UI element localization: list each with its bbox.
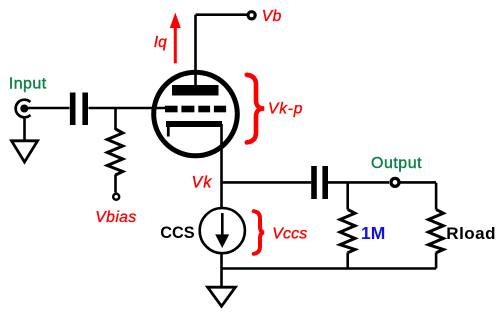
svg-text:Input: Input <box>9 76 47 93</box>
svg-text:Iq: Iq <box>154 34 167 51</box>
svg-text:Vccs: Vccs <box>272 225 307 242</box>
svg-text:Vk: Vk <box>192 174 213 192</box>
svg-text:Vb: Vb <box>262 8 282 25</box>
svg-text:Rload: Rload <box>446 224 496 243</box>
svg-text:Vbias: Vbias <box>95 209 136 226</box>
svg-text:Output: Output <box>371 155 422 172</box>
svg-text:Vk-p: Vk-p <box>268 100 303 117</box>
svg-text:CCS: CCS <box>160 224 195 242</box>
svg-text:1M: 1M <box>361 223 385 243</box>
